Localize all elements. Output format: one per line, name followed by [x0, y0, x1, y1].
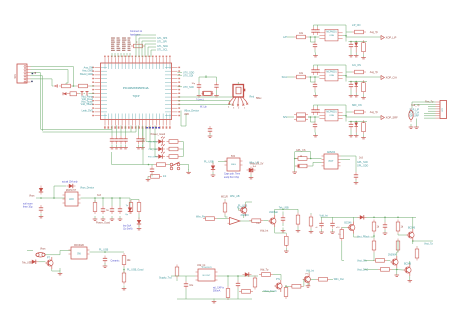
wire sw out	[90, 251, 125, 253]
ground c123	[110, 145, 128, 149]
wire mcu bottom drops	[112, 126, 155, 157]
svg-text:Vdd_Int: Vdd_Int	[306, 270, 314, 273]
resistor R50	[175, 265, 179, 279]
svg-text:3v3: 3v3	[359, 157, 364, 160]
capacitor C30	[39, 205, 43, 213]
label L/P_ON	[352, 24, 361, 27]
wire q2223	[387, 252, 410, 278]
LED D3	[149, 144, 165, 151]
label note4	[213, 286, 225, 292]
transistor Q22	[388, 255, 398, 268]
wire f3 loads	[349, 121, 368, 123]
label Vout_DAC	[357, 268, 368, 271]
ground c32	[110, 216, 115, 220]
capacitor C60	[281, 215, 285, 223]
capacitor C51	[236, 281, 240, 289]
label Vdd_Touch2	[263, 290, 277, 293]
resistor R2	[167, 140, 181, 144]
label Vdd_Tp2	[260, 269, 269, 272]
capacitor C70	[383, 222, 387, 230]
ground f2d	[361, 94, 366, 99]
ground usb	[208, 133, 213, 137]
ground r62	[284, 248, 289, 252]
capacitor C21	[81, 92, 84, 96]
resistor R77	[338, 227, 343, 241]
wire vout dac rail	[364, 260, 378, 269]
capacitor C6	[150, 165, 154, 175]
svg-text:Avg_Tp: Avg_Tp	[370, 71, 379, 74]
capacitor C3	[119, 136, 123, 144]
svg-text:SRF_ON: SRF_ON	[352, 104, 362, 107]
resistor R7	[148, 175, 162, 179]
svg-text:L/P: L/P	[283, 35, 287, 39]
label Res_Tp	[425, 101, 434, 104]
flag C/A	[381, 76, 397, 80]
svg-text:BC546: BC546	[344, 222, 352, 224]
label C/A_ON	[352, 64, 361, 67]
ground cp0	[249, 175, 254, 179]
ground sw	[146, 176, 151, 181]
capacitor C13	[208, 126, 212, 134]
svg-text:Avg_Tp: Avg_Tp	[370, 31, 379, 34]
svg-text:SCA: SCA	[282, 75, 288, 79]
ground jp2a	[409, 124, 414, 128]
svg-text:PL_USB_Good: PL_USB_Good	[127, 268, 144, 271]
label PL_USB_Good	[127, 268, 144, 271]
resistor RP1	[296, 155, 310, 160]
ground d12	[211, 172, 216, 176]
ground f2b	[349, 90, 354, 97]
svg-text:Vdd_Int: Vdd_Int	[260, 229, 269, 232]
label Wfm_Out	[334, 278, 344, 281]
svg-text:L/P_ON: L/P_ON	[352, 24, 361, 27]
capacitor C3b	[123, 136, 127, 144]
capacitor CF3d	[349, 122, 353, 130]
wire f1 fb	[314, 25, 347, 42]
wire fin3	[308, 116, 311, 118]
label Vout_Tp	[424, 243, 434, 246]
svg-text:PL_USB: PL_USB	[204, 160, 214, 163]
wire q14 em	[275, 231, 287, 234]
wire q21	[398, 217, 413, 244]
svg-text:Vout_Ofs: Vout_Ofs	[357, 259, 368, 262]
svg-text:Vbus: Vbus	[29, 194, 35, 197]
wire r77 down	[342, 241, 344, 260]
label PL_USB a	[204, 160, 214, 163]
flag SRF	[381, 116, 398, 120]
wire jtag route	[136, 35, 156, 57]
capacitor CF1c	[313, 42, 317, 50]
label Avg_Tp2	[370, 71, 379, 74]
wire reg out	[81, 197, 131, 199]
ground f3a	[313, 130, 318, 137]
diode DP1	[297, 165, 300, 168]
label usb pins blue	[146, 127, 160, 128]
capacitor C50	[184, 281, 194, 289]
wire f2 in	[287, 76, 319, 78]
label note1	[23, 203, 33, 209]
wire f1 mid	[311, 37, 316, 42]
label GPL_CS	[296, 149, 306, 152]
label Vdd_Int q12	[306, 270, 314, 273]
wire r4344	[123, 267, 125, 273]
resistor RF3b	[294, 118, 308, 122]
svg-text:MCP6001: MCP6001	[326, 72, 337, 74]
capacitor CF2a	[311, 67, 315, 75]
svg-text:Vout_Tp: Vout_Tp	[424, 243, 434, 246]
capacitor CF2d	[349, 82, 353, 90]
ground sw right	[186, 169, 191, 173]
label pot in	[249, 162, 259, 165]
transistor Q11	[274, 279, 282, 292]
label S/S	[283, 115, 287, 119]
ground f3b	[349, 130, 354, 137]
ground rail bottom	[177, 299, 252, 303]
U1 top pins	[104, 56, 171, 69]
transistor Q10	[45, 257, 53, 269]
ground f1d	[361, 54, 366, 59]
wire f2 fb	[314, 65, 347, 82]
svg-text:MCLR: MCLR	[221, 195, 228, 198]
capacitor C4	[136, 136, 145, 144]
resistor R6	[154, 163, 168, 167]
ground d16	[137, 226, 142, 230]
power switch IC5	[69, 245, 90, 259]
capacitor CF3a	[311, 107, 315, 115]
capacitor CF1a	[311, 27, 315, 35]
fuse F1	[36, 253, 45, 257]
wire r45	[217, 218, 228, 220]
label MCLR	[221, 195, 228, 198]
wire header to U1 top pins	[112, 53, 130, 57]
ground f3c	[354, 133, 359, 137]
label Connect to hardware	[130, 30, 143, 36]
wire q12 coll	[308, 272, 310, 274]
svg-text:Power_Good: Power_Good	[151, 133, 166, 136]
wire fuse	[27, 251, 71, 255]
label note3	[224, 173, 240, 179]
junction marks sv1	[31, 72, 36, 82]
svg-text:Wfm_Pw: Wfm_Pw	[196, 216, 206, 218]
resistor R9	[131, 42, 145, 48]
flag L/P	[381, 36, 397, 40]
label pot in2	[252, 166, 256, 168]
label Vbus2	[40, 248, 46, 251]
svg-text:AD5204: AD5204	[327, 151, 336, 154]
transistor Q23	[403, 263, 411, 276]
resistor RP2	[296, 164, 310, 168]
wire f3 mid	[311, 117, 316, 122]
wire pot right	[341, 156, 357, 172]
svg-text:TPS61070: TPS61070	[201, 267, 212, 269]
svg-text:Red: Red	[250, 95, 255, 98]
wire sw row	[112, 128, 189, 170]
svg-text:XOP_SRF: XOP_SRF	[386, 116, 399, 120]
label note2	[123, 225, 133, 231]
resistor R53	[253, 276, 257, 290]
wire led rail	[182, 142, 184, 157]
transistor Q12	[303, 273, 311, 285]
wire vout	[412, 240, 433, 242]
wire boost out	[218, 275, 259, 286]
connector JP1 debug header labels	[111, 38, 131, 51]
svg-text:OPA: OPA	[329, 74, 334, 77]
diode D16	[137, 218, 141, 227]
svg-text:wil_CAP in: wil_CAP in	[213, 286, 225, 289]
svg-text:REG: REG	[231, 164, 236, 166]
ground c33	[118, 216, 123, 220]
wire f3 in	[287, 116, 319, 118]
svg-text:OPA: OPA	[329, 34, 334, 37]
ground c45	[136, 145, 145, 149]
diode D14	[30, 260, 39, 264]
label Avg_Tp1	[370, 31, 379, 34]
capacitor CF2b	[315, 67, 319, 75]
resistor R44	[122, 271, 126, 285]
svg-text:Vdd_Int: Vdd_Int	[320, 214, 329, 217]
ground q12	[306, 283, 311, 287]
ground c31	[101, 216, 106, 220]
label SRF_ON	[352, 104, 362, 107]
ground f1a	[313, 50, 318, 57]
resistor R74	[415, 247, 419, 261]
LED DF2	[354, 83, 358, 93]
capacitor C2	[114, 136, 118, 144]
label Vout_PBack	[357, 236, 370, 239]
resistor RF2o	[352, 70, 366, 74]
svg-text:LDO: LDO	[69, 199, 74, 201]
LED D4	[148, 152, 165, 159]
wire boost in	[171, 276, 196, 281]
svg-text:actual 10A only: actual 10A only	[62, 180, 78, 183]
resistor RF2p	[362, 80, 366, 94]
label jp2 nets	[408, 110, 419, 118]
svg-text:XOP_C/A: XOP_C/A	[386, 76, 398, 80]
regulator IC3	[225, 156, 243, 171]
svg-text:Supply_Txd: Supply_Txd	[159, 276, 172, 279]
op-amp U1 microcontroller PIC32MX695F512L body	[101, 63, 172, 120]
ground q23	[408, 278, 413, 282]
svg-text:3v3: 3v3	[97, 194, 102, 197]
svg-text:Init: Init	[163, 175, 167, 178]
svg-text:Ceramic: Ceramic	[111, 259, 121, 262]
svg-text:PIC32MX695F512L: PIC32MX695F512L	[123, 86, 150, 90]
label Power_Good2	[96, 222, 111, 225]
capacitor C22	[86, 92, 89, 96]
resistor R55	[284, 285, 288, 299]
svg-text:VBus_Device: VBus_Device	[184, 109, 200, 112]
label Wfm_PwrOn	[196, 216, 206, 218]
svg-text:Vbus: Vbus	[40, 248, 46, 251]
svg-text:BC546: BC546	[408, 228, 416, 230]
wire jp2	[412, 102, 436, 118]
svg-text:500mA: 500mA	[213, 290, 221, 293]
wire r4041	[131, 200, 139, 220]
diode D11	[62, 180, 78, 188]
ground c40	[103, 263, 108, 267]
U1 bottom pins	[104, 114, 171, 129]
capacitor C62	[330, 221, 340, 230]
capacitor CP0	[249, 167, 253, 175]
resistor R43	[122, 253, 131, 267]
label SCA	[282, 75, 288, 79]
digital pot IC4	[322, 151, 341, 169]
ground pot r	[354, 180, 359, 184]
label VBus_Device	[184, 109, 200, 112]
LED DF3	[354, 123, 358, 133]
ground q22	[395, 272, 400, 276]
svg-text:Vout_PBack: Vout_PBack	[357, 236, 370, 239]
resistor R20	[59, 84, 73, 88]
wire q13	[238, 202, 252, 221]
wire usb down	[181, 111, 186, 127]
label Power_Good	[151, 133, 166, 136]
svg-text:MCP1727: MCP1727	[66, 190, 77, 192]
svg-text:MCP6001: MCP6001	[326, 32, 337, 34]
label USB	[184, 114, 189, 116]
label PL_USB b	[237, 206, 247, 209]
wire reg in	[36, 186, 66, 199]
capacitor C33	[118, 206, 122, 214]
wire pot loop	[294, 152, 312, 166]
capacitor CF3b	[315, 107, 319, 115]
ground f1b	[349, 50, 354, 57]
wire f3 out	[343, 112, 381, 117]
svg-text:2N3904: 2N3904	[388, 255, 397, 257]
label r40 net	[125, 205, 128, 207]
resistor R71	[372, 239, 376, 253]
diode D15	[243, 272, 252, 276]
svg-text:S/S: S/S	[283, 115, 287, 119]
wire f1 out	[343, 32, 381, 37]
label Vout_Dfl	[250, 163, 264, 166]
svg-text:Avg_Tp: Avg_Tp	[370, 111, 379, 114]
ground c61	[319, 229, 324, 233]
LED DF1	[354, 43, 358, 53]
transistor Q21	[406, 228, 415, 241]
resistor R62	[285, 234, 289, 248]
diode D21	[63, 92, 67, 95]
capacitor C61	[315, 221, 324, 230]
label Vdd_Int3	[320, 214, 329, 217]
ground f2c	[354, 93, 359, 97]
svg-text:5Box: 5Box	[256, 97, 262, 100]
svg-text:Vdd_Tp: Vdd_Tp	[260, 269, 269, 272]
svg-text:XOP_C/A: XOP_C/A	[409, 112, 419, 115]
label 3v3 pot	[359, 157, 364, 160]
svg-text:TQFP: TQFP	[133, 94, 140, 98]
pin arrow sv1	[55, 85, 58, 87]
diode D17	[128, 198, 132, 214]
U1 left pins	[92, 67, 107, 117]
ground c70	[383, 230, 388, 234]
op-amp UF2	[319, 69, 342, 81]
wire r7071	[373, 234, 375, 239]
capacitor C12	[214, 82, 218, 90]
svg-text:MCP6001: MCP6001	[326, 112, 337, 114]
regulator IC2	[63, 190, 81, 206]
wire SV1 to mcu	[31, 67, 74, 132]
ground c60	[281, 228, 286, 232]
label Red	[250, 95, 255, 98]
svg-text:Wfm_Out: Wfm_Out	[334, 278, 344, 281]
label r40b net	[125, 214, 129, 216]
transistor Q20	[344, 222, 355, 234]
wire led4	[155, 156, 183, 158]
resistor R75	[373, 259, 387, 263]
svg-text:UTX_SCK: UTX_SCK	[183, 86, 194, 89]
resistor R3	[167, 147, 181, 151]
label Vout_Ofs	[357, 259, 368, 262]
svg-text:Power_Good: Power_Good	[96, 222, 111, 225]
label Tek_USB2	[22, 261, 32, 264]
resistor R40	[129, 200, 133, 214]
svg-text:Wfm_AB: Wfm_AB	[230, 195, 240, 198]
label UTX_SDO	[183, 71, 194, 74]
op-amp UF3	[319, 109, 342, 121]
ground crystal2	[214, 90, 219, 97]
svg-text:PL_USB: PL_USB	[99, 249, 109, 252]
transistor Q13	[239, 204, 249, 217]
transistor Q14	[268, 211, 278, 227]
wire mcu right stubs	[178, 73, 183, 87]
svg-text:Leak_DVS: Leak_DVS	[82, 109, 94, 112]
svg-text:PW_RED: PW_RED	[148, 142, 158, 144]
ground r30	[93, 216, 98, 220]
label Vdd_Tp	[411, 104, 420, 107]
svg-text:GTL_SPI: GTL_SPI	[157, 40, 167, 43]
resistor R54	[239, 290, 253, 294]
wire out rail	[347, 217, 416, 219]
capacitor C11	[192, 82, 202, 90]
svg-text:BC546: BC546	[404, 263, 412, 265]
resistor RF2	[294, 72, 308, 79]
svg-text:PW_GRN: PW_GRN	[148, 157, 158, 159]
wire led3	[150, 148, 183, 150]
capacitor CP1	[354, 172, 358, 180]
svg-text:(1u 5mA): (1u 5mA)	[123, 228, 133, 231]
svg-text:SV1: SV1	[14, 73, 17, 78]
wire f1 in	[287, 36, 319, 38]
svg-text:Caps pub. Term: Caps pub. Term	[224, 173, 240, 176]
boost IC6	[196, 267, 218, 281]
svg-text:than 10g: than 10g	[23, 206, 33, 209]
resistor RF1o	[352, 30, 366, 34]
ground r63	[309, 229, 314, 233]
svg-text:XOP_L/P: XOP_L/P	[386, 36, 397, 40]
capacitor CF1d	[349, 42, 353, 50]
label Vdd_Int2	[260, 229, 269, 232]
resistor R21	[76, 84, 90, 88]
wire c6162	[321, 217, 347, 220]
capacitor CF1b	[315, 27, 319, 35]
resistor R72	[396, 220, 404, 234]
switch S1	[170, 162, 180, 170]
ground pot l	[292, 169, 297, 173]
svg-text:W_Up: W_Up	[200, 105, 207, 108]
wire 5v in	[213, 162, 227, 165]
resistor R52	[259, 273, 273, 277]
resistor RF1	[294, 32, 308, 39]
capacitor C1	[110, 136, 114, 144]
label UTX_SDI	[183, 74, 193, 77]
U1 left net labels	[80, 67, 94, 113]
ground c30	[39, 214, 44, 218]
svg-text:OPA: OPA	[329, 114, 334, 117]
capacitor C20	[67, 92, 79, 96]
capacitor CF2c	[313, 82, 317, 90]
wire led2	[146, 141, 183, 143]
